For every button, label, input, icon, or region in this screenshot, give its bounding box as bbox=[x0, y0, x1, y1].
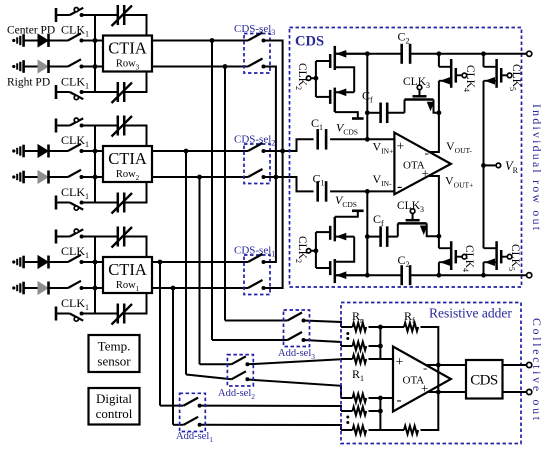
resistor R1b bbox=[353, 394, 367, 402]
diode row1 right PD bbox=[38, 282, 48, 294]
switch CLK1 row3 bottom bbox=[68, 59, 81, 66]
wire row2 output bottom to CDS-sel2 bbox=[152, 176, 248, 178]
terminal collective out upper bbox=[527, 362, 532, 367]
svg-text:CTIA: CTIA bbox=[108, 149, 147, 168]
node v5 junction bbox=[210, 38, 215, 43]
node v1 junction bbox=[158, 260, 163, 265]
svg-text:Digital: Digital bbox=[96, 391, 132, 406]
wire Rf top to output bbox=[421, 327, 439, 430]
block box CDS bbox=[290, 28, 522, 288]
capacitor Cf lower bbox=[379, 226, 382, 247]
wire adder minus input bbox=[380, 397, 393, 399]
wire row1 output top to CDS-sel1 bbox=[152, 261, 248, 263]
wire adder minus summing vertical bbox=[379, 398, 381, 430]
transistor T1 upper VCDS pair bbox=[334, 46, 337, 70]
svg-text:Temp.: Temp. bbox=[98, 339, 131, 354]
node VR tap bbox=[481, 163, 486, 168]
wire row1 center PD line bbox=[24, 261, 38, 263]
switch Add-sel2 lower bbox=[231, 371, 246, 379]
wire C1 upper to OTA bbox=[330, 138, 394, 140]
wire bus v5 row3 top output drop bbox=[211, 41, 213, 341]
photodiode input row3 right PD light symbol bbox=[12, 65, 15, 68]
node v4 junction bbox=[197, 175, 202, 180]
svg-text:CDS-sel1: CDS-sel1 bbox=[234, 245, 275, 259]
reset switch row3 top bbox=[70, 8, 84, 15]
svg-text:Resistive adder: Resistive adder bbox=[429, 306, 512, 321]
switch CDS-sel1 bottom bbox=[248, 280, 263, 288]
wire R1b to summing node bbox=[369, 397, 381, 399]
node summing R1b bbox=[378, 396, 383, 401]
resistor Rf bottom bbox=[404, 426, 418, 434]
switch CLK1 row2 bottom bbox=[68, 170, 81, 177]
terminal collective out lower bbox=[527, 389, 532, 394]
node CLK2 lower gate bbox=[314, 248, 319, 253]
transistor CLK5 lower bbox=[495, 241, 498, 270]
node VOUT- CLK3 junction bbox=[437, 110, 442, 115]
node top rail VIN+ tap bbox=[365, 51, 370, 56]
transistor T2 upper VCDS pair bbox=[334, 88, 337, 113]
transistor CLK3 lower feedback switch bbox=[398, 222, 427, 225]
reset switch row1 top bbox=[70, 229, 84, 236]
wire row3 bottom feedback loop bbox=[95, 91, 118, 93]
svg-text:CTIA: CTIA bbox=[108, 260, 147, 279]
terminal individual row out lower bbox=[527, 273, 532, 278]
svg-text:CDS: CDS bbox=[295, 34, 324, 50]
wire adder input row R1b stub bbox=[341, 397, 353, 399]
wire Rnb to summing node bbox=[369, 429, 381, 431]
switch Add-sel1 lower bbox=[184, 417, 199, 425]
wire Cf upper leads bbox=[367, 112, 379, 114]
reset switch row3 bottom bbox=[70, 92, 84, 99]
svg-text:Center PD: Center PD bbox=[7, 24, 55, 36]
node CLK2 upper gate bbox=[314, 76, 319, 81]
switch CLK1 row3 top bbox=[68, 33, 81, 40]
switch CDS-sel1 top bbox=[248, 254, 263, 262]
svg-text:CLK3: CLK3 bbox=[397, 200, 424, 214]
wire Add-sel2 upper to adder R row3 bbox=[247, 359, 341, 364]
capacitor row2 bottom feedback cap bbox=[117, 193, 120, 213]
wire adder plus summing vertical bbox=[379, 327, 381, 359]
node row1 bus bottom bbox=[93, 286, 98, 291]
wire adder plus input bbox=[380, 358, 393, 360]
wire VR bias vertical bbox=[483, 81, 485, 248]
node bus B row2 tap bbox=[274, 175, 279, 180]
svg-text:Add-sel3: Add-sel3 bbox=[278, 348, 315, 361]
diode row3 center PD bbox=[38, 34, 48, 46]
photodiode input row1 center PD light symbol bbox=[12, 260, 15, 263]
switch CDS-sel2 bottom bbox=[248, 169, 263, 177]
svg-text:CDS-sel2: CDS-sel2 bbox=[234, 134, 275, 148]
wire row1 top feedback loop bbox=[95, 236, 118, 238]
svg-text:CLK2: CLK2 bbox=[295, 63, 309, 90]
selector box Add-sel1 bbox=[180, 393, 206, 431]
svg-text:CLK1: CLK1 bbox=[61, 133, 89, 149]
svg-text:CLK5: CLK5 bbox=[509, 64, 523, 91]
node rail CLK4 lower bbox=[437, 273, 442, 278]
node row2 bus top bbox=[93, 149, 98, 154]
node VIN- junction bbox=[365, 189, 370, 194]
terminal CLK2 lower circle bbox=[306, 249, 310, 253]
diode row2 right PD bbox=[38, 171, 48, 183]
capacitor row1 top feedback cap bbox=[117, 227, 120, 247]
switch CDS-sel3 top bbox=[248, 33, 263, 41]
reset switch row2 bottom bbox=[70, 203, 84, 210]
capacitor row3 top feedback cap bbox=[117, 5, 120, 25]
wire Cf lower leads bbox=[367, 236, 379, 238]
photodiode input row2 center PD light symbol bbox=[12, 149, 15, 152]
svg-text:+: + bbox=[396, 355, 404, 370]
terminal bar row3 bottom reset bbox=[55, 85, 58, 99]
svg-text:+: + bbox=[421, 381, 428, 396]
wire row1 input bus bbox=[94, 237, 96, 314]
wire Add-sel3 upper to adder R row1 bbox=[304, 321, 342, 328]
svg-text:CDS: CDS bbox=[470, 373, 498, 389]
wire row1 top reset line bbox=[56, 236, 70, 238]
node row2 bus bottom bbox=[93, 175, 98, 180]
power terminal VCDS upper bbox=[352, 117, 364, 120]
wire adder output lower bbox=[428, 391, 527, 393]
wire row3 top reset line bbox=[56, 14, 70, 16]
wire row3 input bus bbox=[94, 15, 96, 92]
wire row2 top reset line bbox=[56, 125, 70, 127]
svg-text:-: - bbox=[397, 178, 402, 195]
resistor Rf bbox=[404, 323, 418, 331]
wire row3 output top to CDS-sel3 bbox=[152, 40, 248, 42]
block Digital control bbox=[89, 388, 140, 425]
terminal bar row3 top reset bbox=[55, 8, 58, 22]
wire v1 to Add-sel1 upper bbox=[160, 405, 184, 407]
reset switch row1 bottom bbox=[70, 314, 84, 321]
capacitor row1 bottom feedback cap bbox=[117, 304, 120, 324]
transistor T4 lower VCDS pair bbox=[334, 259, 337, 283]
svg-text:Right PD: Right PD bbox=[7, 77, 50, 89]
capacitor C1 upper bbox=[316, 129, 319, 150]
wire row3 output bottom to CDS-sel3 bbox=[152, 66, 248, 68]
svg-text:CLK1: CLK1 bbox=[61, 75, 89, 91]
node Rf top output junction bbox=[436, 363, 441, 368]
node v3 junction bbox=[184, 149, 189, 154]
switch CDS-sel2 top bbox=[248, 143, 263, 151]
wire row3 top feedback loop bbox=[95, 14, 118, 16]
svg-text:CLK1: CLK1 bbox=[61, 244, 89, 259]
capacitor C1 lower bbox=[316, 181, 319, 202]
node summing R2b bbox=[378, 409, 383, 414]
node rail CLK5 lower bbox=[481, 273, 486, 278]
wire row3 top out to bus A bbox=[264, 41, 283, 289]
wire VIN+ node vertical bbox=[366, 54, 368, 140]
svg-text:-: - bbox=[397, 393, 402, 409]
svg-text:CLK2: CLK2 bbox=[295, 236, 309, 263]
selector box CDS-sel2 bbox=[244, 144, 270, 184]
wire CLK5 lower drain stub bbox=[483, 262, 485, 275]
op-amp OTA1 triangle bbox=[394, 133, 451, 195]
node bus A row2 tap bbox=[280, 149, 285, 154]
svg-text:-: - bbox=[425, 145, 429, 160]
svg-text:-: - bbox=[423, 360, 427, 375]
switch Add-sel1 upper bbox=[184, 398, 199, 406]
wire adder output upper bbox=[426, 364, 527, 366]
wire Add-sel1 upper to adder R row6 bbox=[200, 406, 341, 411]
reset switch row2 top bbox=[70, 118, 84, 125]
node v2 junction bbox=[171, 286, 176, 291]
selector box CDS-sel3 bbox=[244, 34, 270, 74]
wire v4 to Add-sel2 upper bbox=[200, 363, 232, 365]
capacitor C2 lower bbox=[400, 265, 403, 285]
wire bus v6 row3 bottom output drop bbox=[224, 67, 226, 321]
wire CLK4 lower drain stub bbox=[438, 262, 440, 275]
photodiode input row2 right PD light symbol bbox=[12, 175, 15, 178]
switch CDS-sel3 bottom bbox=[248, 59, 263, 67]
wire adder input row Rnb stub bbox=[341, 429, 353, 431]
svg-text:CTIA: CTIA bbox=[108, 39, 147, 58]
wire CLK5 upper drain stub bbox=[483, 54, 485, 67]
node Rf bottom output junction bbox=[436, 390, 441, 395]
op-amp CTIA Row2 box bbox=[103, 146, 152, 182]
wire row2 center PD line bbox=[24, 150, 38, 152]
block Temp sensor bbox=[89, 335, 140, 372]
wire row2 top out to CDS input plus bbox=[264, 139, 314, 151]
svg-text:CLK1: CLK1 bbox=[61, 22, 89, 38]
wire row2 bottom out to CDS input minus bbox=[264, 177, 314, 191]
node VIN+ junction bbox=[365, 137, 370, 142]
wire row3 bottom reset line bbox=[56, 91, 70, 93]
wire row1 right PD line bbox=[24, 287, 38, 289]
wire row2 bottom reset line bbox=[56, 202, 70, 204]
node summing Rn bbox=[378, 325, 383, 330]
svg-text:CLK1: CLK1 bbox=[61, 296, 89, 312]
photodiode input row1 right PD light symbol bbox=[12, 286, 15, 289]
transistor CLK3 upper feedback switch bbox=[405, 98, 434, 101]
node row3 bus top bbox=[93, 38, 98, 43]
diode row1 center PD bbox=[38, 256, 48, 268]
wire Add-sel3 lower to adder R row2 bbox=[304, 340, 342, 346]
wire Rf top lead bbox=[380, 326, 404, 328]
svg-text:+: + bbox=[397, 140, 405, 155]
node rail CLK4 upper bbox=[437, 51, 442, 56]
block box Resistive adder bbox=[341, 303, 521, 444]
transistor CLK4 upper bbox=[450, 59, 453, 88]
wire adder input row R1 stub bbox=[341, 358, 353, 360]
op-amp CTIA Row3 box bbox=[103, 36, 152, 72]
capacitor C2 upper bbox=[400, 44, 403, 64]
power terminal VCDS lower bbox=[352, 210, 364, 213]
wire row2 input bus bbox=[94, 126, 96, 203]
wire VOUT- from OTA1 bbox=[429, 81, 439, 152]
switch CLK1 row1 top bbox=[68, 255, 81, 262]
wire row2 output top to CDS-sel2 bbox=[152, 150, 248, 152]
wire R1 to summing node bbox=[369, 358, 381, 360]
svg-text:CLK3: CLK3 bbox=[403, 76, 430, 90]
resistor R2 bbox=[353, 342, 367, 350]
wire CLK2 upper gate connector bbox=[316, 60, 330, 62]
node adder top ellipsis bbox=[346, 332, 349, 335]
terminal bar row1 bottom reset bbox=[55, 307, 58, 321]
wire VR stub bbox=[484, 164, 497, 166]
svg-text:CLK1: CLK1 bbox=[61, 185, 89, 201]
wire VOUT+ from OTA1 bbox=[428, 176, 439, 248]
wire v3 to Add-sel2 lower bbox=[186, 375, 231, 380]
switch CLK1 row2 top bbox=[68, 144, 81, 151]
selector box Add-sel2 bbox=[227, 355, 253, 386]
photodiode input row3 center PD light symbol bbox=[12, 39, 15, 42]
node rail CLK5 upper bbox=[481, 51, 486, 56]
resistor Rnb bbox=[353, 426, 367, 434]
wire row1 output bottom to CDS-sel1 bbox=[152, 287, 248, 289]
wire Add-sel1 lower to adder R row7 bbox=[200, 425, 341, 430]
resistor R1 bbox=[353, 355, 367, 363]
terminal bar row1 top reset bbox=[55, 230, 58, 244]
switch Add-sel3 lower bbox=[288, 332, 303, 340]
terminal bar row2 top reset bbox=[55, 119, 58, 133]
wire row2 top feedback loop bbox=[95, 125, 118, 127]
svg-text:CLK4: CLK4 bbox=[463, 65, 477, 92]
wire v6 to Add-sel3 upper bbox=[225, 320, 288, 322]
wire row2 right PD line bbox=[24, 176, 38, 178]
svg-text:Add-sel1: Add-sel1 bbox=[176, 431, 213, 444]
terminal CLK2 upper circle bbox=[306, 76, 310, 80]
wire Rn to summing node bbox=[369, 326, 381, 328]
op-amp OTA2 triangle bbox=[393, 347, 451, 412]
diode row2 center PD bbox=[38, 145, 48, 157]
wire row1 bottom reset line bbox=[56, 313, 70, 315]
terminal VR bbox=[496, 163, 501, 168]
transistor CLK5 upper bbox=[495, 59, 498, 88]
wire adder input row Rn stub bbox=[341, 326, 353, 328]
wire row3 center PD line bbox=[24, 40, 38, 42]
svg-text:Add-sel2: Add-sel2 bbox=[218, 388, 255, 401]
wire adder input row R2b stub bbox=[341, 410, 353, 412]
resistor Rn bbox=[353, 323, 367, 331]
wire bottom output rail bbox=[335, 274, 401, 276]
node summing R2 bbox=[378, 344, 383, 349]
transistor T3 lower VCDS pair bbox=[334, 217, 337, 242]
block CDS bottom bbox=[466, 360, 503, 399]
wire v5 to Add-sel3 lower bbox=[212, 339, 288, 341]
wire v2 to Add-sel1 lower bbox=[173, 424, 184, 426]
resistor R2b bbox=[353, 407, 367, 415]
svg-text:CDS-sel3: CDS-sel3 bbox=[234, 23, 275, 37]
switch Add-sel3 upper bbox=[288, 313, 303, 321]
wire bus v2 row1 bottom output drop bbox=[172, 288, 174, 425]
svg-text:CLK4: CLK4 bbox=[462, 245, 476, 272]
wire bus v4 row2 bottom output drop bbox=[199, 177, 201, 364]
node adder bottom ellipsis bbox=[346, 416, 349, 419]
svg-text:+: + bbox=[422, 166, 429, 181]
wire row1 bottom feedback loop bbox=[95, 313, 118, 315]
wire bus v1 row1 top output drop bbox=[159, 262, 161, 406]
op-amp CTIA Row1 box bbox=[103, 257, 152, 293]
selector box Add-sel3 bbox=[284, 310, 310, 347]
wire row3 bottom out to bus B bbox=[264, 67, 276, 263]
wire C1 lower to OTA bbox=[330, 190, 394, 192]
wire adder input row R2 stub bbox=[341, 345, 353, 347]
wire bus v3 row2 top output drop bbox=[185, 151, 187, 375]
svg-text:CLK5: CLK5 bbox=[508, 244, 522, 271]
node Cf upper tap bbox=[365, 110, 370, 115]
node bottom rail VIN- tap bbox=[365, 273, 370, 278]
selector box CDS-sel1 bbox=[244, 255, 270, 295]
node row1 bus top bbox=[93, 260, 98, 265]
terminal bar row2 bottom reset bbox=[55, 196, 58, 210]
wire R2 to summing node bbox=[369, 345, 381, 347]
switch CLK1 row1 bottom bbox=[68, 281, 81, 288]
wire CLK2 lower gate connector bbox=[316, 231, 330, 233]
wire Add-sel2 lower to adder R row5 bbox=[247, 380, 341, 399]
switch Add-sel2 upper bbox=[231, 356, 246, 364]
terminal individual row out upper bbox=[527, 51, 532, 56]
wire R2b to summing node bbox=[369, 410, 381, 412]
wire top output rail bbox=[335, 53, 401, 55]
node Cf lower tap bbox=[365, 234, 370, 239]
wire CLK4 upper drain stub bbox=[438, 54, 440, 67]
wire VIN- node vertical bbox=[366, 191, 368, 275]
capacitor row2 top feedback cap bbox=[117, 116, 120, 136]
node VOUT+ CLK3 junction bbox=[437, 234, 442, 239]
capacitor Cf upper bbox=[379, 103, 382, 124]
wire row2 bottom feedback loop bbox=[95, 202, 118, 204]
transistor CLK4 lower bbox=[450, 241, 453, 270]
svg-text:control: control bbox=[96, 406, 133, 421]
diode row3 right PD bbox=[38, 60, 48, 72]
svg-text:sensor: sensor bbox=[97, 354, 131, 369]
capacitor row3 bottom feedback cap bbox=[117, 82, 120, 102]
node row3 bus bottom bbox=[93, 64, 98, 69]
node v6 junction bbox=[223, 64, 228, 69]
wire row3 right PD line bbox=[24, 66, 38, 68]
wire Rf bottom lead bbox=[380, 429, 404, 431]
